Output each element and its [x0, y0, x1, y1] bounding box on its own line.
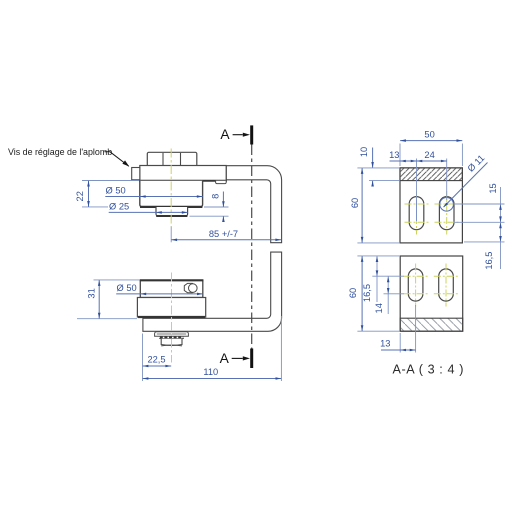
- drum diameter 50: [140, 181, 203, 207]
- dim diameter 50 (drum): [105, 186, 202, 198]
- dim 10 (hatch band height): [359, 147, 399, 187]
- upper bracket arm (J piece): [226, 166, 281, 243]
- dim 22 (left of drum): [75, 181, 139, 207]
- svg-text:Vis de réglage de l'aplomb: Vis de réglage de l'aplomb: [8, 147, 112, 157]
- svg-text:22: 22: [75, 191, 85, 201]
- dim 15 (right of top plate): [454, 183, 505, 269]
- svg-text:60: 60: [348, 288, 358, 298]
- adjustment screw head: [132, 168, 140, 180]
- svg-text:13: 13: [380, 339, 390, 349]
- dim 22,5: [143, 334, 172, 382]
- top cap with two lugs: [147, 152, 197, 165]
- svg-text:15: 15: [488, 183, 498, 193]
- svg-text:Ø 50: Ø 50: [106, 186, 126, 196]
- top plate hatched band: [400, 168, 462, 181]
- top plate outline: [400, 168, 462, 243]
- svg-text:24: 24: [424, 150, 434, 160]
- small tab under housing right: [216, 181, 227, 184]
- svg-text:16,5: 16,5: [362, 284, 372, 302]
- svg-text:A: A: [220, 127, 230, 142]
- svg-text:Ø 25: Ø 25: [109, 202, 129, 212]
- centerline top assembly: [170, 149, 172, 227]
- slot 2 of top plate: [439, 197, 454, 230]
- dim 14 (between slot centers): [374, 276, 404, 314]
- dims 13 and 24 (slot positions): [389, 150, 447, 196]
- centerline bottom assembly: [171, 273, 173, 363]
- dim 16,5 (right, below top plate): [464, 223, 505, 270]
- svg-text:A-A ( 3 : 4 ): A-A ( 3 : 4 ): [393, 362, 465, 376]
- svg-text:8: 8: [210, 194, 220, 199]
- svg-text:60: 60: [350, 198, 360, 208]
- dim 13 (bottom plate, left edge to slot center): [380, 305, 415, 353]
- dim 60 (left of bottom plate): [348, 256, 399, 331]
- svg-text:Ø 50: Ø 50: [117, 283, 137, 293]
- section line A-A: [251, 145, 253, 349]
- slot 1 of bottom plate: [408, 269, 423, 301]
- slot centerlines (yellow) bottom plate: [404, 264, 459, 307]
- svg-text:13: 13: [389, 150, 399, 160]
- bottom plate hatched band: [400, 318, 463, 331]
- slot 1 of top plate: [409, 197, 424, 230]
- hex nut body: [161, 339, 182, 346]
- svg-text:10: 10: [359, 147, 369, 157]
- leader to adjustment screw: [105, 152, 131, 168]
- bottom plate outline: [400, 256, 463, 331]
- title A-A ( 3 : 4 ): [393, 362, 465, 376]
- dim diameter 50 (bottom cylinder): [116, 283, 203, 295]
- dim 50 (top of plate): [400, 129, 462, 166]
- svg-text:14: 14: [374, 303, 384, 313]
- bolt on bottom cylinder: [184, 283, 197, 292]
- section marker bottom: bar, arrow, letter A: [220, 349, 254, 369]
- bottom cylinder diameter 50: [140, 280, 204, 297]
- svg-text:50: 50: [424, 129, 434, 139]
- section marker top: bar, arrow, letter A: [220, 125, 253, 144]
- svg-text:85 +/-7: 85 +/-7: [209, 229, 238, 239]
- blue extension verticals through top plate slots: [417, 197, 447, 221]
- dim 16,5 (bottom plate, top to first slot center): [362, 256, 404, 302]
- svg-text:110: 110: [203, 367, 218, 377]
- svg-text:16,5: 16,5: [484, 252, 494, 270]
- washer under plate: [155, 332, 189, 336]
- serrated ring of flange nut: [159, 337, 184, 338]
- housing body: [139, 166, 227, 181]
- lower bracket arm with plate (J piece): [143, 252, 282, 331]
- dim 85 +/-7: [171, 227, 281, 243]
- dim 8 (right of pivot): [190, 192, 229, 223]
- dim 60 (left of top plate): [350, 168, 399, 243]
- svg-text:A: A: [220, 351, 230, 366]
- dim diameter 25 (pivot): [109, 202, 188, 214]
- bottom flange: [137, 298, 205, 318]
- slot 2 of bottom plate: [439, 269, 454, 301]
- dim 31 (left of bottom cylinder): [77, 280, 140, 319]
- pivot diameter 25: [156, 207, 188, 216]
- diameter 11 reference circle and leader: [440, 153, 488, 211]
- slot centerlines (yellow) top plate: [405, 191, 460, 235]
- svg-text:31: 31: [87, 288, 97, 298]
- svg-text:22,5: 22,5: [147, 355, 165, 365]
- dim 110: [143, 316, 282, 381]
